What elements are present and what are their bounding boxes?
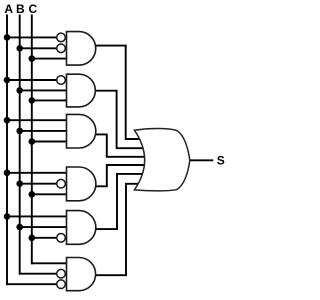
inversion bubble U6 input2 <box>57 269 66 278</box>
wire U4 output to OR input4 <box>93 165 146 186</box>
junction dot A-U5 <box>4 213 11 220</box>
junction dot B-U2 <box>16 87 23 94</box>
junction dot B-U5 <box>16 224 23 231</box>
node B vertical line <box>19 16 21 274</box>
junction dot B-U4 <box>16 180 23 187</box>
junction dot B-U3 <box>16 128 23 135</box>
wire B to U2 input2 <box>20 89 67 91</box>
wire A to U2 input1 <box>7 79 57 81</box>
AND gate U4 <box>67 167 96 201</box>
wire C to U3 input3 <box>32 141 67 143</box>
wire U2 output to OR input2 <box>93 91 146 149</box>
junction dot C-U1 <box>29 55 36 62</box>
AND gate U6 <box>67 258 96 291</box>
junction dot C-U4 <box>29 191 36 198</box>
junction dot B-U1 <box>16 45 23 52</box>
inversion bubble U2 input1 <box>57 76 66 85</box>
OR gate U7 <box>134 129 189 191</box>
wire B to U1 input2 <box>20 47 58 49</box>
wire U1 output to OR input1 <box>93 46 146 139</box>
AND gate U2 <box>67 74 96 107</box>
node A vertical line <box>6 16 8 285</box>
svg-text:A: A <box>4 2 13 16</box>
wire C to U5 input3 <box>32 237 57 239</box>
wire C to U4 input3 <box>32 193 67 195</box>
wire C corner to U6 input1 <box>32 262 67 264</box>
wire C to U1 input3 <box>32 58 67 60</box>
wire A to U5 input1 <box>7 215 67 217</box>
wire B corner to U6 input2 <box>20 273 58 275</box>
node C vertical line <box>31 16 33 264</box>
junction dot A-U1 <box>4 34 11 41</box>
wire C to U2 input3 <box>32 99 67 101</box>
inversion bubble U5 input3 <box>57 234 66 243</box>
inversion bubble U1 input2 <box>57 44 66 53</box>
inversion bubble U4 input2 <box>57 179 66 188</box>
inversion bubble U1 input1 <box>57 33 66 42</box>
junction dot A-U2 <box>4 77 11 84</box>
wire A corner to U6 input3 <box>7 283 57 285</box>
wire A to U4 input1 <box>7 172 67 174</box>
wire A to U3 input1 <box>7 119 67 121</box>
wire B to U4 input2 <box>20 183 58 185</box>
wire B to U3 input2 <box>20 130 67 132</box>
svg-text:S: S <box>217 154 225 168</box>
wire A to U1 input1 <box>7 36 57 38</box>
AND gate U1 <box>67 32 96 66</box>
wire U5 output to OR input5 <box>93 174 146 229</box>
junction dot A-U3 <box>4 117 11 124</box>
svg-text:B: B <box>16 2 25 16</box>
inversion bubble U6 input3 <box>57 280 66 289</box>
junction dot C-U2 <box>29 97 36 104</box>
wire U3 output to OR input3 <box>93 134 146 156</box>
wire B to U5 input2 <box>20 226 67 228</box>
wire OR output to S <box>190 159 213 161</box>
AND gate U5 <box>67 211 96 245</box>
junction dot C-U5 <box>29 235 36 242</box>
svg-text:C: C <box>28 2 37 16</box>
junction dot A-U4 <box>4 170 11 177</box>
junction dot C-U3 <box>29 138 36 145</box>
AND gate U3 <box>67 114 96 148</box>
wire U6 output to OR input6 <box>93 184 146 275</box>
